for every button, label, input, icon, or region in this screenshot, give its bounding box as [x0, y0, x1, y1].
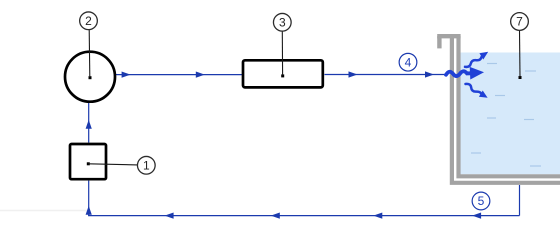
tank left stub: [437, 36, 441, 48]
wire up to box1: [88, 181, 90, 216]
label 3: [273, 13, 291, 31]
arrowhead right x434: [425, 71, 434, 77]
connector label7: [519, 31, 522, 78]
tank water: [461, 53, 560, 175]
svg-text:1: 1: [143, 158, 150, 172]
connector label3: [281, 31, 283, 75]
tank outer wall: [452, 36, 560, 183]
wire box1 to pump: [88, 102, 90, 143]
wire tank down: [519, 185, 521, 216]
label 4: [399, 53, 417, 71]
svg-text:4: 4: [405, 55, 412, 69]
faint page boundary line: [0, 210, 88, 212]
connector label1: [88, 164, 137, 165]
label 7: [511, 13, 529, 31]
box1 center dot: [87, 162, 90, 165]
wire filter to tank: [325, 74, 448, 76]
svg-text:2: 2: [85, 14, 92, 28]
tank center dot: [519, 76, 522, 79]
connector label2: [88, 30, 91, 77]
label 2: [80, 12, 98, 30]
splash arrow upper: [465, 57, 482, 67]
svg-text:5: 5: [478, 194, 485, 208]
arrowhead left x164: [165, 213, 174, 219]
arrowhead right x130: [122, 72, 131, 78]
splash arrow lower: [466, 84, 482, 95]
tank inner wall: [459, 36, 560, 176]
filter center dot: [281, 74, 284, 77]
water ripple dashes: [471, 64, 541, 167]
arrowhead up x88 y206: [86, 206, 92, 215]
splash arrow thick: [446, 71, 470, 76]
arrowhead left x270: [271, 213, 280, 219]
arrowhead up x88 y120: [86, 120, 92, 129]
box 1: [70, 144, 106, 179]
arrowhead right x204: [196, 72, 205, 78]
wire pump to filter: [116, 74, 243, 76]
filter box 3: [243, 60, 323, 87]
svg-text:7: 7: [516, 15, 523, 29]
label 5: [472, 192, 490, 210]
arrowhead right x357: [349, 71, 358, 77]
svg-text:3: 3: [279, 15, 286, 29]
pump center dot: [89, 76, 92, 79]
tank top cap: [437, 34, 460, 38]
arrowhead left x373: [373, 213, 382, 219]
wire bottom return: [88, 215, 519, 217]
label 1: [137, 156, 155, 174]
arrowhead left x472: [472, 213, 481, 219]
pump P circle: [65, 52, 115, 102]
